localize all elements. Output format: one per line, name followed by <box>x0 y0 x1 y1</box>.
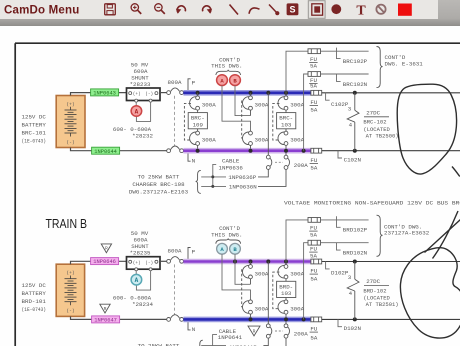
svg-text:5A: 5A <box>310 164 317 171</box>
svg-text:800A: 800A <box>168 248 182 255</box>
wire fuseB2 to contd <box>321 243 369 250</box>
breaker chain BRC-103 <box>273 93 296 149</box>
svg-text:300A: 300A <box>255 137 269 144</box>
fuse B1 label FU 5A <box>309 225 317 239</box>
switch tie dashed (B) <box>174 264 176 315</box>
200A tie dashed (B) <box>275 330 283 332</box>
circle tool icon <box>331 4 341 14</box>
label CONT'D DWG. E-3631 <box>385 54 424 67</box>
svg-text:BRD-101: BRD-101 <box>22 298 47 305</box>
svg-text:(-): (-) <box>145 92 153 97</box>
breaker chain 2 (B) <box>242 262 253 318</box>
wire shunt to 800A switch (B) <box>160 260 167 262</box>
breaker chain BRC-109 <box>184 93 207 149</box>
svg-text:S: S <box>289 5 295 15</box>
svg-text:1NP0646: 1NP0646 <box>93 259 116 265</box>
svg-text:300A: 300A <box>290 137 304 144</box>
svg-text:4: 4 <box>349 121 353 128</box>
wire D102N line <box>322 318 460 320</box>
200A breaker P side <box>258 93 272 177</box>
svg-text:TRAIN B: TRAIN B <box>46 216 88 231</box>
svg-text:5A: 5A <box>310 83 317 90</box>
svg-text:800A: 800A <box>168 79 182 86</box>
svg-text:THIS DWG.: THIS DWG. <box>211 231 242 238</box>
wire shunt to 800A switch <box>160 92 167 94</box>
zoom out icon <box>155 4 165 14</box>
wire N bus to fuse BRC102N <box>304 74 308 151</box>
svg-text:300A: 300A <box>290 305 304 312</box>
BRC-103 box text <box>279 102 304 144</box>
svg-text:CamDo Menu: CamDo Menu <box>4 5 79 17</box>
svg-text:300A: 300A <box>202 137 216 144</box>
svg-text:300A: 300A <box>290 102 304 109</box>
wire P bus to fuse BRC102P <box>286 51 308 93</box>
ammeter A (train B, cyan) <box>131 274 142 285</box>
zoom in icon <box>131 4 141 14</box>
breaker chain 2 (A/B monitor) <box>242 93 253 149</box>
save icon <box>105 4 116 15</box>
svg-text:5A: 5A <box>310 232 317 239</box>
fuse FU 5A BRC102N <box>308 72 321 77</box>
line tool icon <box>230 5 239 15</box>
wire P bus to fuse BRD102P <box>286 220 308 262</box>
label CONT'D DWG. 237127A-E3632 <box>384 223 430 236</box>
svg-text:BRD102N: BRD102N <box>343 250 368 257</box>
meter scale label 600- 0-600A *28232 <box>113 126 154 140</box>
red color swatch <box>398 4 412 16</box>
fuse 3 label FU 5A <box>310 99 318 114</box>
svg-text:BRD102P: BRD102P <box>343 227 368 234</box>
chain 2 labels (B) <box>255 270 269 312</box>
svg-text:BATTERY: BATTERY <box>22 290 47 297</box>
svg-text:4: 4 <box>349 290 353 297</box>
ammeter A (train A, red) <box>131 106 142 117</box>
node N flag (B) <box>188 322 196 333</box>
revision triangle R1 <box>101 244 111 253</box>
svg-text:300A: 300A <box>290 270 304 277</box>
svg-text:*28232: *28232 <box>132 133 153 140</box>
shunt label 50 MV 600A SHUNT *28233 <box>130 61 151 88</box>
svg-text:1NP0647: 1NP0647 <box>94 318 117 324</box>
svg-text:(-): (-) <box>66 308 74 314</box>
junction dots P bus <box>196 91 288 95</box>
svg-text:P: P <box>192 80 196 87</box>
battery BRD-101 <box>56 264 84 316</box>
revision triangle R3 <box>248 326 260 336</box>
wire D102P line <box>322 261 460 263</box>
svg-text:TO 25KW BATT: TO 25KW BATT <box>138 342 180 346</box>
svg-text:C102P: C102P <box>331 101 349 108</box>
wire A to breaker chain 2 <box>222 86 251 132</box>
cable tag 1NP0643 <box>91 89 119 97</box>
svg-text:BRC102N: BRC102N <box>343 81 368 88</box>
svg-text:VOLTAGE MONITORING NON-SAFEGUA: VOLTAGE MONITORING NON-SAFEGUARD 125V DC… <box>284 199 460 206</box>
tap to BRD-102 with break <box>347 260 359 322</box>
node P flag <box>188 79 196 90</box>
fuse 2 label FU 5A <box>309 77 317 90</box>
svg-text:DWG. E-3631: DWG. E-3631 <box>385 60 424 67</box>
svg-text:300A: 300A <box>202 102 216 109</box>
label 27DC BRC-102 <box>363 109 398 139</box>
svg-text:(1E-0743): (1E-0743) <box>22 307 47 313</box>
cable 1NP0636P line <box>201 176 226 178</box>
svg-text:5A: 5A <box>310 62 317 69</box>
wire C102P line <box>322 92 460 94</box>
svg-text:FU: FU <box>310 157 317 164</box>
brace contd dwg E-3631 <box>377 47 383 88</box>
svg-text:TO 25KW BATT: TO 25KW BATT <box>138 173 180 180</box>
junction dots P bus (B) <box>233 260 288 264</box>
svg-text:1NP0643: 1NP0643 <box>93 91 116 97</box>
cable tag 1NP0646 <box>91 258 119 266</box>
tap to BRC-102 with break <box>347 91 359 153</box>
svg-text:CHARGER BRC-108: CHARGER BRC-108 <box>132 181 185 188</box>
svg-text:(-): (-) <box>145 261 153 266</box>
BRD-103 box text <box>279 270 304 312</box>
chain 2 labels <box>255 102 269 144</box>
junction dots N bus (B) <box>249 317 306 321</box>
svg-text:D102P: D102P <box>331 270 349 277</box>
svg-text:FU: FU <box>310 225 317 232</box>
svg-text:C102N: C102N <box>344 157 362 164</box>
label CABLE 1NP0641 <box>200 328 258 346</box>
annotation blob top <box>397 84 460 176</box>
svg-text:BRC-101: BRC-101 <box>22 130 47 137</box>
svg-text:T: T <box>356 4 366 19</box>
svg-text:300A: 300A <box>255 270 269 277</box>
svg-text:R: R <box>253 329 256 335</box>
wire B to breaker chain 2 <box>235 86 251 116</box>
svg-text:FU: FU <box>310 326 317 333</box>
svg-text:A: A <box>135 277 139 284</box>
svg-text:*28233: *28233 <box>130 81 151 88</box>
800A fused switch N <box>167 146 184 153</box>
shunt label 50 MV 600A SHUNT *28235 <box>130 230 151 257</box>
svg-text:27DC: 27DC <box>366 278 380 285</box>
terminal circle A (red) <box>217 75 228 86</box>
svg-text:237127A-E3632: 237127A-E3632 <box>384 230 430 237</box>
wire shunt taps to ammeter <box>136 102 150 121</box>
svg-text:(-): (-) <box>66 139 74 145</box>
brace contd dwg E-3632 <box>377 215 383 256</box>
terminal circle B (cyan) <box>230 243 241 254</box>
BRC-109 box text <box>191 102 216 144</box>
label D102P <box>326 262 349 277</box>
svg-text:200A: 200A <box>294 331 308 338</box>
wire fuseB1 to contd <box>321 216 369 227</box>
battery BRC-101 <box>56 96 85 148</box>
svg-text:103: 103 <box>281 121 292 128</box>
svg-text:BATTERY: BATTERY <box>22 122 47 129</box>
svg-text:5A: 5A <box>310 275 317 282</box>
terminal circle A (cyan) <box>217 243 228 254</box>
no-symbol icon <box>376 5 385 14</box>
svg-text:FU: FU <box>310 268 317 275</box>
svg-text:FU: FU <box>310 99 317 106</box>
labels 3 and 4 (B) <box>348 274 353 297</box>
800A fused switch N (B) <box>167 315 184 322</box>
200A breaker P side (B) <box>263 262 271 346</box>
terminal circle B (red) <box>230 75 241 86</box>
fuse FU 5A on N bus end (B) <box>311 317 322 322</box>
node P flag (B) <box>188 248 196 259</box>
svg-text:(+): (+) <box>66 270 74 276</box>
svg-text:(+): (+) <box>66 101 74 107</box>
labels 3 and 4 <box>348 105 353 128</box>
200A breaker N side (B) <box>284 322 289 346</box>
svg-text:3: 3 <box>348 105 352 112</box>
svg-text:(+): (+) <box>133 92 141 97</box>
svg-text:BRC-102: BRC-102 <box>363 119 386 126</box>
svg-text:BRC102P: BRC102P <box>343 58 368 65</box>
label CABLE 1NP0636 <box>219 157 244 171</box>
switch tie dashed <box>174 96 176 147</box>
svg-text:3: 3 <box>348 274 352 281</box>
fuse FU 5A on P bus end (B) <box>311 259 322 264</box>
meter scale label 600- 0-600A *28234 <box>113 295 154 309</box>
svg-text:200A: 200A <box>294 162 308 169</box>
svg-text:BRD-102: BRD-102 <box>363 287 386 294</box>
label TO 25KW BATT CHARGER <box>129 173 189 195</box>
svg-text:R: R <box>104 306 107 312</box>
label D102N <box>338 319 362 332</box>
svg-text:AT TB2500): AT TB2500) <box>366 132 399 139</box>
fuse FU 5A BRC102P <box>308 49 321 54</box>
svg-text:1NP0636: 1NP0636 <box>219 164 244 171</box>
fuse 4 label FU 5A <box>310 157 318 172</box>
junction dots N bus <box>196 149 306 153</box>
svg-text:*28235: *28235 <box>130 250 151 257</box>
bus BRD-102P (purple) <box>183 259 311 265</box>
svg-text:5A: 5A <box>310 252 317 259</box>
svg-text:N: N <box>192 326 196 333</box>
wire C102N line <box>322 150 460 152</box>
svg-text:27DC: 27DC <box>366 109 380 116</box>
svg-text:125V DC: 125V DC <box>22 114 47 121</box>
bus BRC-102N (purple) <box>183 148 311 154</box>
svg-text:300A: 300A <box>255 102 269 109</box>
wire shunt taps to ammeter (B) <box>136 271 150 290</box>
svg-text:R: R <box>105 246 108 252</box>
battery label text 125V DC BATTERY BRC-101 <box>22 114 47 145</box>
svg-text:125V DC: 125V DC <box>22 282 47 289</box>
svg-text:5A: 5A <box>310 335 317 342</box>
svg-text:(+): (+) <box>133 261 141 266</box>
node N flag <box>188 154 196 165</box>
200A breaker N side <box>258 153 289 187</box>
bus BRC-102P (blue) <box>183 90 311 96</box>
breaker chain BRD-103 <box>273 262 296 318</box>
svg-text:D102N: D102N <box>344 325 362 332</box>
wire battery positive to shunt (B) <box>71 261 127 264</box>
wire fuse1 to contd <box>321 48 369 59</box>
svg-text:300A: 300A <box>255 305 269 312</box>
revision triangle R2 <box>100 304 110 313</box>
cable tag 1NP0647 <box>92 316 120 324</box>
fuse B2 label FU 5A <box>309 246 317 260</box>
TOOLBAR <box>0 0 460 26</box>
filled square tool icon (selected) <box>308 1 325 19</box>
fuse 1 label FU 5A <box>309 56 317 70</box>
fuse FU 5A on N bus end <box>311 148 322 153</box>
svg-text:1NP0644: 1NP0644 <box>94 149 117 155</box>
CONT'D THIS DWG. label <box>211 56 242 75</box>
shunt *28233 <box>127 88 161 102</box>
annotation blob bottom <box>400 211 460 338</box>
svg-text:5A: 5A <box>310 106 317 113</box>
wire battery positive to shunt <box>71 93 127 96</box>
cable tag 1NP0644 <box>92 147 120 155</box>
cable group leader <box>211 164 216 188</box>
svg-text:1NP0636P: 1NP0636P <box>228 174 256 181</box>
svg-text:AT TB2501): AT TB2501) <box>366 301 399 308</box>
bus BRD-102N (blue) <box>183 317 311 323</box>
arc tool icon <box>249 8 260 14</box>
redo icon <box>203 6 213 14</box>
CONT'D THIS DWG. label (B) <box>211 225 242 244</box>
svg-text:CABLE: CABLE <box>222 157 240 164</box>
fuse B4 label FU 5A <box>310 326 318 342</box>
svg-text:1NP0641: 1NP0641 <box>218 334 243 341</box>
svg-text:P: P <box>192 248 196 255</box>
cable brace <box>196 170 201 193</box>
S tool icon <box>287 3 299 15</box>
fuse B3 label FU 5A <box>310 268 318 283</box>
svg-text:109: 109 <box>193 121 204 128</box>
wire fuse2 to contd <box>321 74 369 81</box>
wire B to breaker chain 2 (B) <box>235 254 251 284</box>
wire A to breaker chain 2 (B) <box>222 254 251 300</box>
svg-text:1NP0636N: 1NP0636N <box>229 184 257 191</box>
label 27DC BRD-102 <box>363 278 398 308</box>
svg-text:A: A <box>135 108 139 115</box>
svg-text:(1E-0743): (1E-0743) <box>22 139 47 145</box>
800A fused switch P <box>167 88 184 95</box>
undo icon <box>176 6 186 14</box>
fuse FU 5A BRD102P <box>308 218 321 223</box>
svg-text:DWG.237127A-E2163: DWG.237127A-E2163 <box>129 188 189 195</box>
line-with-dot tool icon <box>269 5 279 16</box>
shunt *28235 <box>127 257 161 271</box>
cable 1NP0636N line <box>201 185 226 187</box>
fuse FU 5A BRD102N <box>308 240 321 245</box>
cable 1NP0641P line <box>201 345 226 346</box>
svg-text:103: 103 <box>281 290 292 297</box>
svg-text:THIS DWG.: THIS DWG. <box>211 63 242 70</box>
200A tie dashed <box>275 161 283 163</box>
wire battery negative to N switch (B) <box>71 316 167 319</box>
battery label text 125V DC BATTERY BRD-101 <box>22 282 47 313</box>
wire battery negative to N switch <box>71 148 167 151</box>
fuse FU 5A on P bus end <box>311 90 322 95</box>
800A fused switch P (B) <box>167 257 184 264</box>
svg-text:N: N <box>192 157 196 164</box>
svg-text:*28234: *28234 <box>132 301 153 308</box>
label C102N <box>338 151 362 164</box>
label C102P <box>326 93 349 108</box>
wire N bus to fuse BRD102N <box>304 243 308 320</box>
